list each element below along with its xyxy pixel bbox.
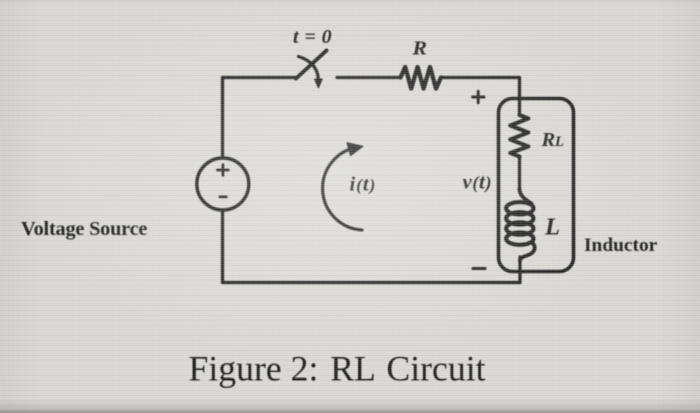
svg-text:R: R xyxy=(411,38,427,60)
svg-text:i(t): i(t) xyxy=(350,174,377,196)
svg-text:Figure 2: RL Circuit: Figure 2: RL Circuit xyxy=(189,349,486,389)
svg-text:Inductor: Inductor xyxy=(584,235,658,256)
svg-text:L: L xyxy=(554,134,564,150)
svg-text:L: L xyxy=(544,214,560,241)
svg-text:v(t): v(t) xyxy=(463,170,493,194)
svg-text:t = 0: t = 0 xyxy=(293,26,332,48)
svg-text:Voltage Source: Voltage Source xyxy=(21,218,147,240)
svg-text:R: R xyxy=(541,129,556,151)
